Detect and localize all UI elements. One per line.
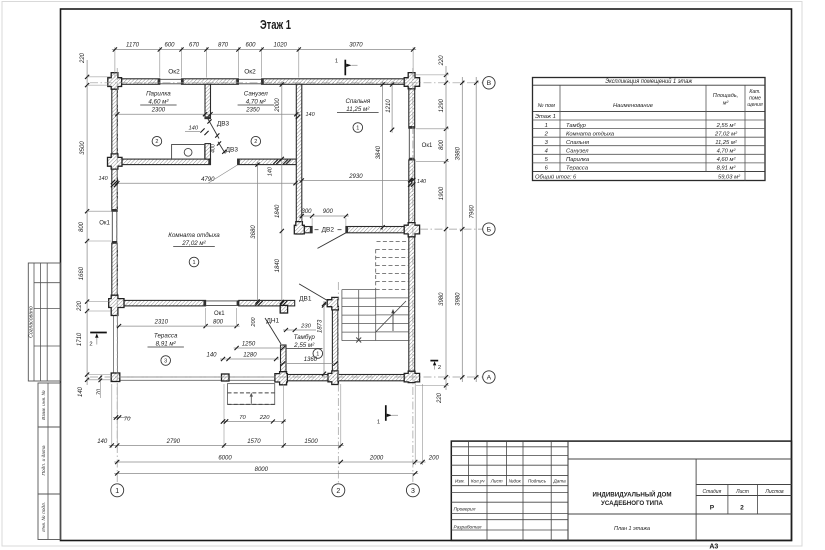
left stamp: Подп. и дата xyxy=(38,427,61,494)
svg-text:Парилка: Парилка xyxy=(146,91,171,98)
svg-text:1570: 1570 xyxy=(247,439,261,445)
svg-text:м²: м² xyxy=(723,101,729,107)
svg-text:Листов: Листов xyxy=(764,489,784,495)
terrace open edge lines xyxy=(113,316,115,374)
right dimension lines xyxy=(445,66,447,390)
svg-text:Наименование: Наименование xyxy=(613,103,654,109)
svg-text:Р: Р xyxy=(710,505,715,512)
svg-text:1020: 1020 xyxy=(274,43,288,49)
svg-text:1840: 1840 xyxy=(275,204,281,218)
svg-text:Ок2: Ок2 xyxy=(244,69,256,76)
middle wall right segment xyxy=(238,159,297,165)
svg-text:Подпись: Подпись xyxy=(528,478,547,483)
svg-text:800: 800 xyxy=(439,139,445,150)
svg-text:1660: 1660 xyxy=(79,266,85,280)
svg-text:Санузел: Санузел xyxy=(244,91,269,98)
svg-text:3680: 3680 xyxy=(251,225,257,239)
axis circle А xyxy=(483,371,495,383)
svg-text:1: 1 xyxy=(377,420,380,426)
svg-text:Дата: Дата xyxy=(553,478,567,483)
svg-text:59,03 м²: 59,03 м² xyxy=(718,174,741,180)
entrance porch steps xyxy=(228,384,275,405)
divider wall between Парилка and Санузел xyxy=(205,84,211,118)
bedroom west wall xyxy=(296,84,302,226)
svg-text:Этаж 1: Этаж 1 xyxy=(535,114,556,120)
svg-text:220: 220 xyxy=(439,55,445,67)
left wall upper segment (axis 1) xyxy=(112,87,118,157)
svg-text:800: 800 xyxy=(79,221,85,232)
top wall segment (axis В) left of window Ок2-1 xyxy=(119,79,160,85)
svg-text:1: 1 xyxy=(115,488,119,495)
window Ок1 in left wall xyxy=(111,211,113,241)
svg-text:1250: 1250 xyxy=(242,342,256,348)
tambour dim 230 xyxy=(283,329,316,331)
interior vdim 1210 xyxy=(391,82,393,133)
svg-text:Ок1: Ок1 xyxy=(214,311,225,317)
svg-text:870: 870 xyxy=(218,43,229,49)
corner joint left wall / middle wall xyxy=(108,154,123,169)
right wall below window Ок1 xyxy=(409,160,415,223)
svg-text:ДВ2: ДВ2 xyxy=(322,227,335,234)
svg-text:2: 2 xyxy=(89,342,92,348)
svg-text:Терасса: Терасса xyxy=(566,166,589,172)
svg-text:План 1 этажа: План 1 этажа xyxy=(614,526,650,532)
svg-text:Инв. № подл.: Инв. № подл. xyxy=(41,502,47,532)
sauna stove xyxy=(172,145,205,160)
bedroom bottom wall stub left of door ДВ2 xyxy=(296,227,312,233)
svg-text:2: 2 xyxy=(740,505,744,512)
bottom dimension row 2 xyxy=(414,384,416,465)
svg-text:1170: 1170 xyxy=(126,43,140,49)
svg-text:Комната отдыха: Комната отдыха xyxy=(168,232,220,239)
svg-text:140: 140 xyxy=(417,179,427,185)
svg-text:№док: №док xyxy=(509,478,522,483)
corner joint tambour east wall / axis А xyxy=(328,371,338,385)
svg-text:140: 140 xyxy=(306,112,316,118)
svg-text:Тамбур: Тамбур xyxy=(294,334,316,341)
svg-text:Стадия: Стадия xyxy=(703,489,722,495)
svg-text:4,60 м²: 4,60 м² xyxy=(148,99,169,106)
svg-text:140: 140 xyxy=(268,166,274,176)
dim 1250 xyxy=(234,347,287,349)
svg-text:8,91 м²: 8,91 м² xyxy=(156,341,177,348)
interior vdim 2000/1840/1840 xyxy=(281,82,283,306)
svg-text:3: 3 xyxy=(411,488,415,495)
interior vdim 1873 xyxy=(323,301,325,377)
window Ок1 in right wall xyxy=(408,128,410,158)
terrace dims 2310/800 xyxy=(116,325,240,327)
svg-text:2,55 м²: 2,55 м² xyxy=(716,123,737,129)
terrace top wall left segment xyxy=(124,300,206,306)
svg-text:3070: 3070 xyxy=(349,43,363,49)
svg-text:ДН1: ДН1 xyxy=(266,317,279,324)
top dimension line xyxy=(114,47,116,78)
svg-text:1840: 1840 xyxy=(275,258,281,272)
svg-text:Ок1: Ок1 xyxy=(99,221,110,227)
bottom dimension row 1 xyxy=(111,384,113,448)
window Ок2 no.1 xyxy=(160,78,182,80)
svg-text:200: 200 xyxy=(251,316,257,327)
svg-text:230: 230 xyxy=(300,324,311,330)
svg-text:800: 800 xyxy=(213,320,224,326)
svg-text:2350: 2350 xyxy=(245,108,260,114)
explication table xyxy=(533,78,766,181)
door ДВ3 no.2 leaf xyxy=(218,142,225,154)
svg-text:600: 600 xyxy=(245,43,256,49)
svg-text:3980: 3980 xyxy=(439,292,445,306)
svg-text:Проверил: Проверил xyxy=(454,507,476,513)
interior dim 2350 (Санузел) xyxy=(208,113,300,115)
right wall lower segment xyxy=(409,236,415,373)
svg-text:3980: 3980 xyxy=(456,292,462,306)
svg-text:Согласовано: Согласовано xyxy=(29,306,35,338)
svg-text:1210: 1210 xyxy=(386,99,392,113)
svg-text:2300: 2300 xyxy=(151,108,166,114)
svg-text:140: 140 xyxy=(99,176,109,182)
terrace post bottom-middle xyxy=(222,374,230,381)
svg-text:Спальня: Спальня xyxy=(345,98,370,105)
svg-text:1: 1 xyxy=(335,59,338,65)
svg-text:Лист: Лист xyxy=(490,478,503,483)
svg-text:7960: 7960 xyxy=(469,204,475,218)
dim 1360 xyxy=(280,363,339,365)
svg-text:140: 140 xyxy=(206,353,217,359)
svg-text:900: 900 xyxy=(323,209,334,215)
door ДВ2 dims 300/900 xyxy=(299,215,349,217)
svg-text:Спальня: Спальня xyxy=(566,140,589,146)
svg-text:140: 140 xyxy=(78,386,84,397)
axis line А xyxy=(90,376,483,378)
tambour east wall (axis 2) xyxy=(332,300,338,374)
svg-text:11,25 м²: 11,25 м² xyxy=(715,140,738,146)
right wall above window Ок1 xyxy=(409,86,415,129)
svg-text:Парилка: Парилка xyxy=(566,157,590,163)
door ДВ1 leaf xyxy=(299,284,326,300)
svg-text:поме: поме xyxy=(749,96,761,102)
axis circle Б xyxy=(483,223,495,235)
svg-text:ДВ1: ДВ1 xyxy=(299,296,312,303)
svg-text:140: 140 xyxy=(188,126,198,132)
bottom dimension row 3 xyxy=(114,472,418,474)
bedroom bottom wall right of door ДВ2 xyxy=(346,227,404,233)
svg-text:В: В xyxy=(487,80,492,87)
svg-text:ДВ3: ДВ3 xyxy=(226,147,239,154)
svg-text:70: 70 xyxy=(239,415,246,421)
svg-text:№ пом: № пом xyxy=(538,103,556,109)
svg-text:1900: 1900 xyxy=(439,186,445,200)
interior vdim 3840 xyxy=(382,82,384,231)
svg-text:2000: 2000 xyxy=(369,456,384,462)
svg-text:Терасса: Терасса xyxy=(154,333,178,340)
bottom wall (axis А) xyxy=(287,375,408,381)
svg-text:А: А xyxy=(487,374,492,381)
stair direction arrow xyxy=(376,301,406,332)
svg-text:1: 1 xyxy=(192,260,195,266)
axis line В xyxy=(90,82,483,84)
svg-text:Этаж 1: Этаж 1 xyxy=(260,18,291,32)
svg-text:600: 600 xyxy=(164,43,175,49)
axis line 1 xyxy=(116,68,118,484)
svg-text:Кол.уч: Кол.уч xyxy=(471,478,485,483)
dim 140/1280 xyxy=(220,358,279,360)
svg-text:2: 2 xyxy=(155,139,158,145)
svg-text:Площадь,: Площадь, xyxy=(713,93,738,99)
svg-text:Тамбур: Тамбур xyxy=(566,123,587,129)
left wall segment below window Ок1 xyxy=(112,243,118,297)
window Ок1 in terrace wall xyxy=(206,300,237,302)
svg-text:3500: 3500 xyxy=(80,141,86,155)
svg-text:Кат.: Кат. xyxy=(749,89,760,95)
svg-text:Лист: Лист xyxy=(735,489,749,495)
corner joint axis 3/В xyxy=(404,73,419,89)
section mark 1 bottom xyxy=(385,405,387,421)
staircase xyxy=(342,290,409,341)
svg-text:2,55 м²: 2,55 м² xyxy=(293,342,315,349)
svg-text:6000: 6000 xyxy=(218,456,232,462)
svg-text:1873: 1873 xyxy=(318,319,324,333)
terrace post bottom-left xyxy=(111,373,120,382)
axis circle В xyxy=(483,77,495,89)
stair start cross xyxy=(356,338,361,343)
svg-text:670: 670 xyxy=(189,43,200,49)
interior dim 2930 xyxy=(299,180,414,182)
svg-text:Комната отдыха: Комната отдыха xyxy=(566,131,615,137)
svg-text:1280: 1280 xyxy=(243,353,257,359)
door ДВ2 leaf xyxy=(318,233,346,249)
title block xyxy=(451,441,791,540)
svg-text:200: 200 xyxy=(428,456,440,462)
svg-text:3980: 3980 xyxy=(456,146,462,160)
svg-text:2310: 2310 xyxy=(154,320,169,326)
svg-text:Ок2: Ок2 xyxy=(168,69,180,76)
section mark 1 top xyxy=(344,60,346,76)
svg-text:4,60 м²: 4,60 м² xyxy=(717,157,737,163)
door ДН1 leaf xyxy=(265,318,281,344)
svg-text:2930: 2930 xyxy=(348,174,363,180)
corner joint bedroom west wall / axis Б xyxy=(294,222,304,234)
svg-text:400: 400 xyxy=(211,144,217,153)
left wall segment above window Ок1 xyxy=(112,167,118,211)
svg-text:4,70 м²: 4,70 м² xyxy=(246,99,267,106)
svg-text:ИНДИВИДУАЛЬНЫЙ ДОМ: ИНДИВИДУАЛЬНЫЙ ДОМ xyxy=(593,489,672,498)
svg-text:Общий итог: 6: Общий итог: 6 xyxy=(535,173,577,180)
left stamp: Взам. инв. № xyxy=(38,383,61,427)
corner joint axis 3/А xyxy=(404,371,419,382)
door ДВ3 no.1 leaf xyxy=(208,119,219,139)
corner joint axis 1/В xyxy=(108,73,122,90)
svg-text:1500: 1500 xyxy=(304,439,318,445)
porch dimension 70/220 xyxy=(222,421,286,423)
corner joint tambour east wall top xyxy=(327,297,338,310)
svg-text:27,02 м²: 27,02 м² xyxy=(714,131,738,137)
divider wall stub at stove xyxy=(205,144,211,160)
svg-text:Б: Б xyxy=(487,227,492,234)
svg-text:2: 2 xyxy=(254,139,257,145)
top wall segment right of Ок2-2 xyxy=(262,79,409,85)
svg-text:УСАДЕБНОГО ТИПА: УСАДЕБНОГО ТИПА xyxy=(601,500,663,507)
entry door ДН1 jamb stub xyxy=(281,306,287,313)
svg-text:2790: 2790 xyxy=(166,439,181,445)
svg-text:2: 2 xyxy=(438,365,441,371)
section mark 2 left xyxy=(90,332,107,334)
tambour west wall below door ДН1 xyxy=(281,345,287,375)
svg-text:щения: щения xyxy=(747,102,763,108)
svg-text:4: 4 xyxy=(545,149,548,155)
svg-text:27,02 м²: 27,02 м² xyxy=(181,240,206,247)
left stamp: Согласовано block xyxy=(28,263,60,381)
interior dim 2300 (Парилка) xyxy=(114,113,208,115)
block at ДН1 jamb top xyxy=(280,305,287,313)
svg-text:Изм.: Изм. xyxy=(455,478,465,483)
svg-text:1710: 1710 xyxy=(77,332,83,346)
left stamp: Инв. № подл. xyxy=(38,494,61,540)
svg-text:1: 1 xyxy=(316,352,319,358)
svg-text:8,91 м²: 8,91 м² xyxy=(717,166,737,172)
window Ок2 no.2 xyxy=(238,78,261,80)
terrace top wall right segment xyxy=(239,300,295,306)
svg-text:3: 3 xyxy=(164,359,167,365)
axis circle 3 xyxy=(406,484,419,497)
svg-text:3840: 3840 xyxy=(376,145,382,159)
staircase dashed upper flight xyxy=(376,242,409,290)
top wall segment between Ок2 windows xyxy=(182,79,239,85)
axis circle 2 xyxy=(332,484,345,497)
interior vdim 3680 xyxy=(257,162,259,305)
svg-text:Санузел: Санузел xyxy=(566,149,589,155)
svg-text:220: 220 xyxy=(437,392,443,404)
break marks xyxy=(273,160,277,164)
svg-text:70: 70 xyxy=(97,388,103,395)
svg-text:Экспликация помещений 1 этаж: Экспликация помещений 1 этаж xyxy=(605,78,693,85)
svg-text:1: 1 xyxy=(545,123,548,129)
svg-text:Разработал: Разработал xyxy=(454,525,482,531)
svg-text:4,70 м²: 4,70 м² xyxy=(717,149,737,155)
svg-text:11,25 м²: 11,25 м² xyxy=(346,106,370,113)
svg-text:220: 220 xyxy=(259,415,270,421)
middle wall left segment (sauna bottom) xyxy=(119,159,211,165)
section mark 2 right xyxy=(430,360,438,362)
tick marks on terrace wall xyxy=(255,301,259,305)
corner joint left wall / terrace wall xyxy=(109,295,124,315)
axis line 3 xyxy=(412,68,414,484)
corner joint axis А / tambour west wall xyxy=(275,372,288,385)
svg-text:300: 300 xyxy=(301,209,312,215)
svg-text:2: 2 xyxy=(336,488,340,495)
svg-text:1290: 1290 xyxy=(439,98,445,112)
svg-text:1: 1 xyxy=(356,126,359,132)
svg-text:Ок1: Ок1 xyxy=(422,143,433,149)
left dimension line xyxy=(86,60,88,385)
svg-text:8000: 8000 xyxy=(255,467,269,473)
corner joint axis 3/Б xyxy=(404,223,419,237)
svg-text:220: 220 xyxy=(77,300,83,312)
axis circle 1 xyxy=(111,484,124,497)
svg-text:А3: А3 xyxy=(709,544,718,550)
svg-text:Взам. инв. №: Взам. инв. № xyxy=(41,390,47,420)
svg-text:140: 140 xyxy=(97,439,108,445)
axis line 2 xyxy=(337,282,339,484)
axis line Б xyxy=(420,228,483,230)
svg-text:2000: 2000 xyxy=(275,98,281,113)
svg-text:Подп. и дата: Подп. и дата xyxy=(41,445,47,475)
svg-text:ДВ3: ДВ3 xyxy=(217,121,230,128)
svg-text:220: 220 xyxy=(80,52,86,64)
interior dim 4790 xyxy=(114,182,298,184)
